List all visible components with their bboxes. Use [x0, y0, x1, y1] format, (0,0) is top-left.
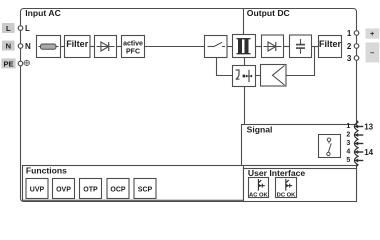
wire switch to transformer	[227, 46, 233, 48]
svg-text:3: 3	[347, 54, 352, 63]
wire PWM to signal block	[244, 87, 246, 125]
regulator comparator U2	[261, 65, 287, 87]
PWM controller U1	[233, 66, 256, 87]
svg-text:1: 1	[347, 29, 352, 38]
spring rail mask	[356, 125, 358, 164]
svg-text:PFC: PFC	[126, 48, 140, 55]
terminal label plus	[366, 28, 380, 38]
svg-text:+: +	[370, 29, 375, 38]
output terminal circle 3	[347, 54, 359, 63]
svg-text:Filter: Filter	[319, 39, 342, 49]
signal terminal digits	[346, 123, 350, 164]
svg-text:5: 5	[346, 157, 350, 164]
feedback wire regulator to output node	[286, 47, 315, 76]
terminal label minus	[366, 42, 380, 62]
wire filter to rectifier	[90, 46, 95, 48]
terminal label L	[2, 23, 15, 33]
earth symbol PE	[24, 60, 29, 65]
function SCP	[134, 179, 156, 199]
svg-text:N: N	[6, 42, 11, 51]
wire transformer to PWM controller	[244, 58, 246, 66]
svg-text:AC OK: AC OK	[249, 193, 268, 199]
svg-text:4: 4	[346, 149, 350, 156]
wire top border to transformer	[243, 9, 245, 36]
spring rail	[354, 121, 358, 167]
svg-text:3: 3	[346, 140, 350, 147]
wire PFC to switch	[145, 46, 205, 48]
svg-text:OCP: OCP	[110, 186, 126, 193]
svg-text:Filter: Filter	[66, 39, 89, 49]
terminal label PE	[1, 58, 15, 68]
svg-text:User Interface: User Interface	[248, 168, 306, 178]
terminal circle PE	[18, 61, 23, 66]
svg-text:OTP: OTP	[83, 186, 98, 193]
wire transformer to output diode	[256, 46, 262, 48]
svg-text:N: N	[25, 42, 31, 51]
wire fuse to filter	[61, 46, 65, 48]
capacitor C1	[290, 35, 312, 58]
terminal arrow 3	[354, 142, 363, 146]
terminal arrow 1	[354, 125, 363, 129]
transformer T1	[233, 35, 256, 58]
svg-text:OVP: OVP	[56, 186, 71, 193]
svg-text:Functions: Functions	[26, 166, 67, 176]
svg-text:–: –	[370, 48, 374, 57]
terminal circle N	[18, 44, 23, 49]
signal block	[242, 124, 357, 165]
svg-text:Signal: Signal	[247, 124, 273, 134]
output terminal circle 2	[347, 42, 359, 51]
filter block (output)	[319, 36, 342, 58]
wire rectifier to PFC	[117, 46, 122, 48]
filter block (input)	[65, 36, 91, 58]
wire diode to capacitor	[284, 46, 290, 48]
svg-text:DC OK: DC OK	[277, 193, 296, 199]
LED AC OK	[249, 178, 269, 199]
terminal label N	[2, 41, 15, 51]
svg-text:active: active	[123, 40, 143, 47]
output terminal circle 1	[347, 29, 359, 38]
svg-text:Output DC: Output DC	[247, 8, 290, 18]
terminal arrow 2	[354, 133, 363, 137]
active PFC block	[122, 36, 145, 58]
terminal arrow 4	[354, 150, 363, 154]
svg-text:PE: PE	[3, 59, 13, 68]
function OTP	[80, 179, 102, 199]
user interface block	[244, 168, 357, 202]
svg-text:13: 13	[364, 123, 373, 132]
switch S1	[205, 36, 228, 58]
terminal arrow 5	[354, 159, 363, 163]
diode D2 (output)	[262, 35, 284, 58]
wire switch to PWM controller	[217, 58, 233, 76]
svg-text:L: L	[25, 24, 30, 33]
LED DC OK	[276, 178, 297, 199]
relay contact K1	[319, 135, 341, 158]
function UVP	[26, 179, 48, 199]
svg-text:14: 14	[364, 148, 373, 157]
svg-text:2: 2	[346, 132, 350, 139]
outer enclosure border	[21, 9, 357, 202]
wire PWM to regulator	[256, 75, 261, 77]
fuse F1	[37, 36, 61, 58]
svg-text:UVP: UVP	[30, 186, 45, 193]
svg-text:1: 1	[346, 123, 350, 130]
svg-text:L: L	[6, 24, 11, 33]
function OVP	[53, 179, 75, 199]
svg-text:2: 2	[347, 42, 352, 51]
functions block	[23, 166, 244, 201]
diode rectifier (input)	[95, 36, 117, 58]
wire capacitor to output filter	[312, 46, 319, 48]
terminal circle L	[18, 26, 23, 31]
svg-text:Input AC: Input AC	[25, 8, 60, 18]
function OCP	[107, 179, 129, 199]
svg-text:SCP: SCP	[138, 186, 153, 193]
